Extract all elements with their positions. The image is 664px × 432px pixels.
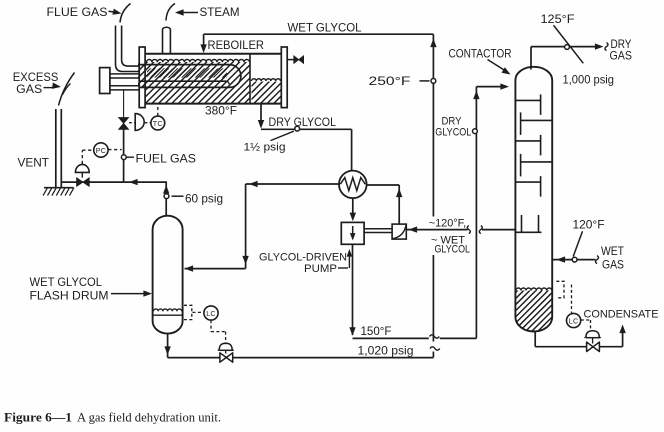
svg-text:WET GLYCOL: WET GLYCOL xyxy=(30,275,103,289)
svg-text:GLYCOL: GLYCOL xyxy=(435,126,471,138)
svg-text:250°F: 250°F xyxy=(369,74,411,88)
svg-text:1,000 psig: 1,000 psig xyxy=(563,74,615,87)
svg-text:~120°F,: ~120°F, xyxy=(429,218,467,230)
svg-text:GAS: GAS xyxy=(602,259,624,272)
svg-text:120°F: 120°F xyxy=(573,217,605,231)
svg-text:STEAM: STEAM xyxy=(200,5,240,19)
svg-text:REBOILER: REBOILER xyxy=(208,38,265,52)
svg-text:1½ psig: 1½ psig xyxy=(244,141,286,153)
svg-text:A gas field dehydration unit.: A gas field dehydration unit. xyxy=(77,410,221,425)
svg-text:GLYCOL-DRIVEN: GLYCOL-DRIVEN xyxy=(259,252,347,264)
svg-text:1,020 psig: 1,020 psig xyxy=(358,344,414,357)
svg-text:380°F: 380°F xyxy=(205,104,237,118)
svg-text:FLUE GAS: FLUE GAS xyxy=(47,5,108,19)
svg-text:FUEL GAS: FUEL GAS xyxy=(136,151,197,165)
svg-text:LC: LC xyxy=(206,309,216,318)
svg-text:DRY GLYCOL: DRY GLYCOL xyxy=(269,116,337,129)
svg-text:WET GLYCOL: WET GLYCOL xyxy=(288,21,362,35)
svg-text:60 psig: 60 psig xyxy=(185,192,223,205)
svg-text:GAS: GAS xyxy=(610,50,633,63)
svg-text:Figure 6—1: Figure 6—1 xyxy=(4,410,72,425)
svg-text:125°F: 125°F xyxy=(541,12,575,26)
svg-text:FLASH DRUM: FLASH DRUM xyxy=(30,289,109,303)
svg-text:GAS: GAS xyxy=(16,82,42,96)
svg-text:150°F: 150°F xyxy=(361,324,392,338)
svg-text:TC: TC xyxy=(153,119,163,128)
svg-text:GLYCOL: GLYCOL xyxy=(435,244,471,256)
svg-text:PC: PC xyxy=(96,146,106,155)
svg-text:CONDENSATE: CONDENSATE xyxy=(584,308,659,320)
svg-text:WET: WET xyxy=(601,245,624,258)
svg-text:PUMP: PUMP xyxy=(304,263,337,275)
svg-text:VENT: VENT xyxy=(18,155,50,169)
svg-text:LC: LC xyxy=(569,317,579,326)
svg-text:CONTACTOR: CONTACTOR xyxy=(449,47,512,61)
